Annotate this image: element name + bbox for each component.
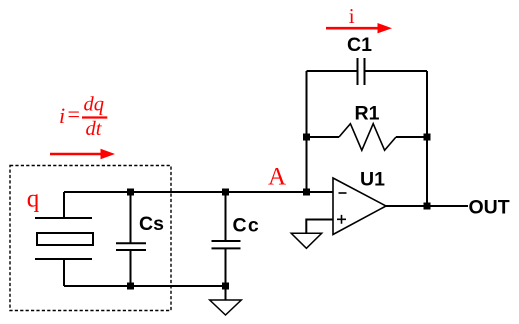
svg-text:dq: dq xyxy=(84,94,105,116)
svg-text:i: i xyxy=(349,4,355,28)
svg-text:R1: R1 xyxy=(355,103,380,125)
svg-text:Cs: Cs xyxy=(139,213,164,235)
svg-text:A: A xyxy=(268,163,286,190)
svg-text:dt: dt xyxy=(86,118,103,140)
svg-text:=: = xyxy=(68,102,80,127)
svg-text:OUT: OUT xyxy=(469,197,510,219)
svg-text:q: q xyxy=(27,186,40,213)
svg-text:C1: C1 xyxy=(347,34,372,56)
svg-text:Cc: Cc xyxy=(233,215,261,237)
svg-text:U1: U1 xyxy=(360,169,385,191)
svg-text:i: i xyxy=(59,103,65,128)
